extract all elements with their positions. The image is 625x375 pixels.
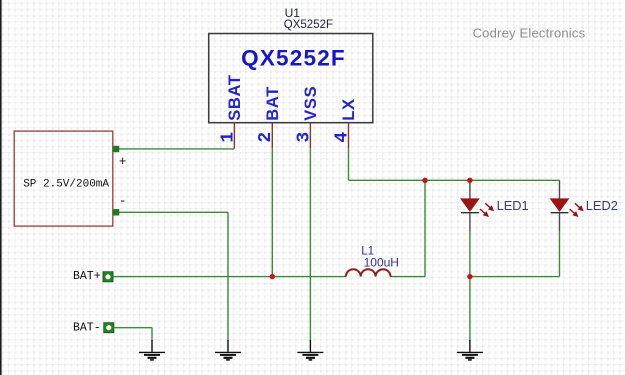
svg-text:U1: U1 <box>285 6 301 20</box>
left window border <box>0 0 2 375</box>
LED1 cathode stub <box>469 213 471 232</box>
svg-text:LX: LX <box>340 98 358 120</box>
solar panel + pin <box>113 146 119 152</box>
ground 2 (solar-) <box>215 340 241 360</box>
inductor L1 coil <box>346 269 391 276</box>
svg-text:1: 1 <box>218 132 238 143</box>
pin 1 SBAT stub <box>233 123 235 149</box>
wire BAT- down to ground <box>151 328 153 341</box>
wire solar- horizontal <box>119 211 228 213</box>
wire LED bottom rail down to ground <box>469 277 471 341</box>
svg-text:+: + <box>119 155 127 169</box>
wire LED2 bottom to LED1 bottom <box>470 276 560 278</box>
wire pin4 LX down <box>348 149 350 181</box>
svg-text:3: 3 <box>294 132 314 143</box>
wire LED1 cathode to bottom rail <box>469 232 471 277</box>
IC U1 QX5252F body <box>209 34 373 123</box>
svg-text:LED2: LED2 <box>586 198 618 213</box>
junction LX/LED1 <box>467 178 472 183</box>
svg-text:BAT+: BAT+ <box>73 270 101 283</box>
wire BAT- horizontal <box>114 327 153 329</box>
svg-text:VSS: VSS <box>302 86 320 121</box>
LED2 light arrows <box>570 203 583 216</box>
wire solar- down to ground <box>227 212 229 341</box>
junction pin2/BAT+ <box>270 274 275 279</box>
junction LX/inductor drop <box>422 178 427 183</box>
svg-text:SBAT: SBAT <box>226 74 244 121</box>
svg-text:-: - <box>119 195 127 209</box>
wire pin3 VSS down to ground <box>309 149 311 341</box>
svg-text:QX5252F: QX5252F <box>241 46 346 71</box>
svg-text:SP 2.5V/200mA: SP 2.5V/200mA <box>23 179 109 191</box>
wire pin2 down to BAT+ rail <box>271 149 273 277</box>
svg-text:Codrey Electronics: Codrey Electronics <box>473 25 586 40</box>
wire inductor to LX drop <box>390 276 425 278</box>
LED1 cathode bar <box>461 212 479 214</box>
port BAT- pad <box>104 323 114 333</box>
wire LX rail down to inductor <box>424 180 426 276</box>
svg-text:BAT: BAT <box>264 86 282 121</box>
port BAT+ pad <box>103 272 113 282</box>
LED1 anode stub <box>469 180 471 199</box>
svg-text:BAT-: BAT- <box>73 322 101 335</box>
svg-text:QX5252F: QX5252F <box>284 19 333 31</box>
LED2 cathode stub <box>559 213 561 232</box>
solar panel SP body <box>14 131 113 226</box>
ground 3 (VSS) <box>297 340 323 360</box>
svg-text:LED1: LED1 <box>497 198 529 213</box>
wire BAT+ rail <box>113 276 272 278</box>
svg-text:100uH: 100uH <box>364 256 399 270</box>
pin 3 VSS stub <box>309 123 311 149</box>
ground 1 (BAT-) <box>139 340 165 360</box>
svg-text:2: 2 <box>256 132 276 143</box>
wire BAT+ rail to inductor <box>272 276 346 278</box>
wire LED2 cathode down <box>559 232 561 277</box>
pin 4 LX stub <box>348 123 350 149</box>
wire LED2 top drop <box>559 180 561 199</box>
wire LX rail to LED2 <box>349 179 560 181</box>
solar panel - pin <box>113 209 119 215</box>
LED1 light arrows <box>480 203 493 216</box>
LED1 triangle <box>461 199 479 211</box>
wire solar+ to pin1 <box>119 148 234 150</box>
ground 4 (LED return) <box>457 340 483 360</box>
junction LED bottom rail <box>467 274 472 279</box>
LED2 cathode bar <box>551 212 569 214</box>
LED2 triangle <box>551 199 569 211</box>
pin 2 BAT stub <box>271 123 273 149</box>
svg-text:4: 4 <box>332 132 352 143</box>
